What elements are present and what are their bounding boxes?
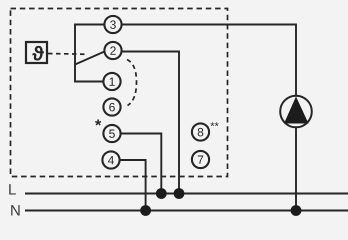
junction dot 2-L [174, 188, 185, 199]
pump P1 [280, 96, 312, 128]
terminal 1 [103, 73, 120, 90]
terminal 4 [102, 151, 119, 168]
terminal 3 [104, 16, 121, 33]
controller enclosure dashed boundary [11, 9, 228, 177]
junction dot 4-N [140, 205, 151, 216]
pump lower lead to N bus [295, 127, 297, 211]
wire: terminal 5 down to L bus [121, 134, 161, 194]
label L [9, 184, 16, 194]
junction dot 5-L [156, 188, 167, 199]
footnote marker * at terminal 5 [95, 119, 101, 125]
wire: terminal 4 down to N bus [120, 160, 146, 211]
N bus line [25, 209, 348, 211]
L bus line [25, 192, 348, 194]
terminal 8 [192, 123, 209, 140]
wire: left bus joining terminals 3 and 1 [75, 25, 104, 82]
thermostat sensor box ϑ [26, 42, 47, 63]
switch blade to terminal 2 [75, 52, 105, 65]
terminal 2 [104, 42, 121, 59]
terminal 7 [192, 151, 209, 168]
terminal 6 [103, 98, 120, 115]
footnote marker ** at terminal 8 [210, 122, 218, 126]
wire: terminal 3 to pump (top run) [122, 25, 296, 96]
dashed alternative link terminal 2 to 6 [127, 60, 137, 106]
junction dot pump-N [291, 205, 302, 216]
label N [11, 205, 19, 215]
dashed actuating link from ϑ to switch blade [48, 53, 88, 56]
terminal 5 [103, 125, 120, 142]
wire: terminal 2 down to L bus [123, 52, 180, 194]
